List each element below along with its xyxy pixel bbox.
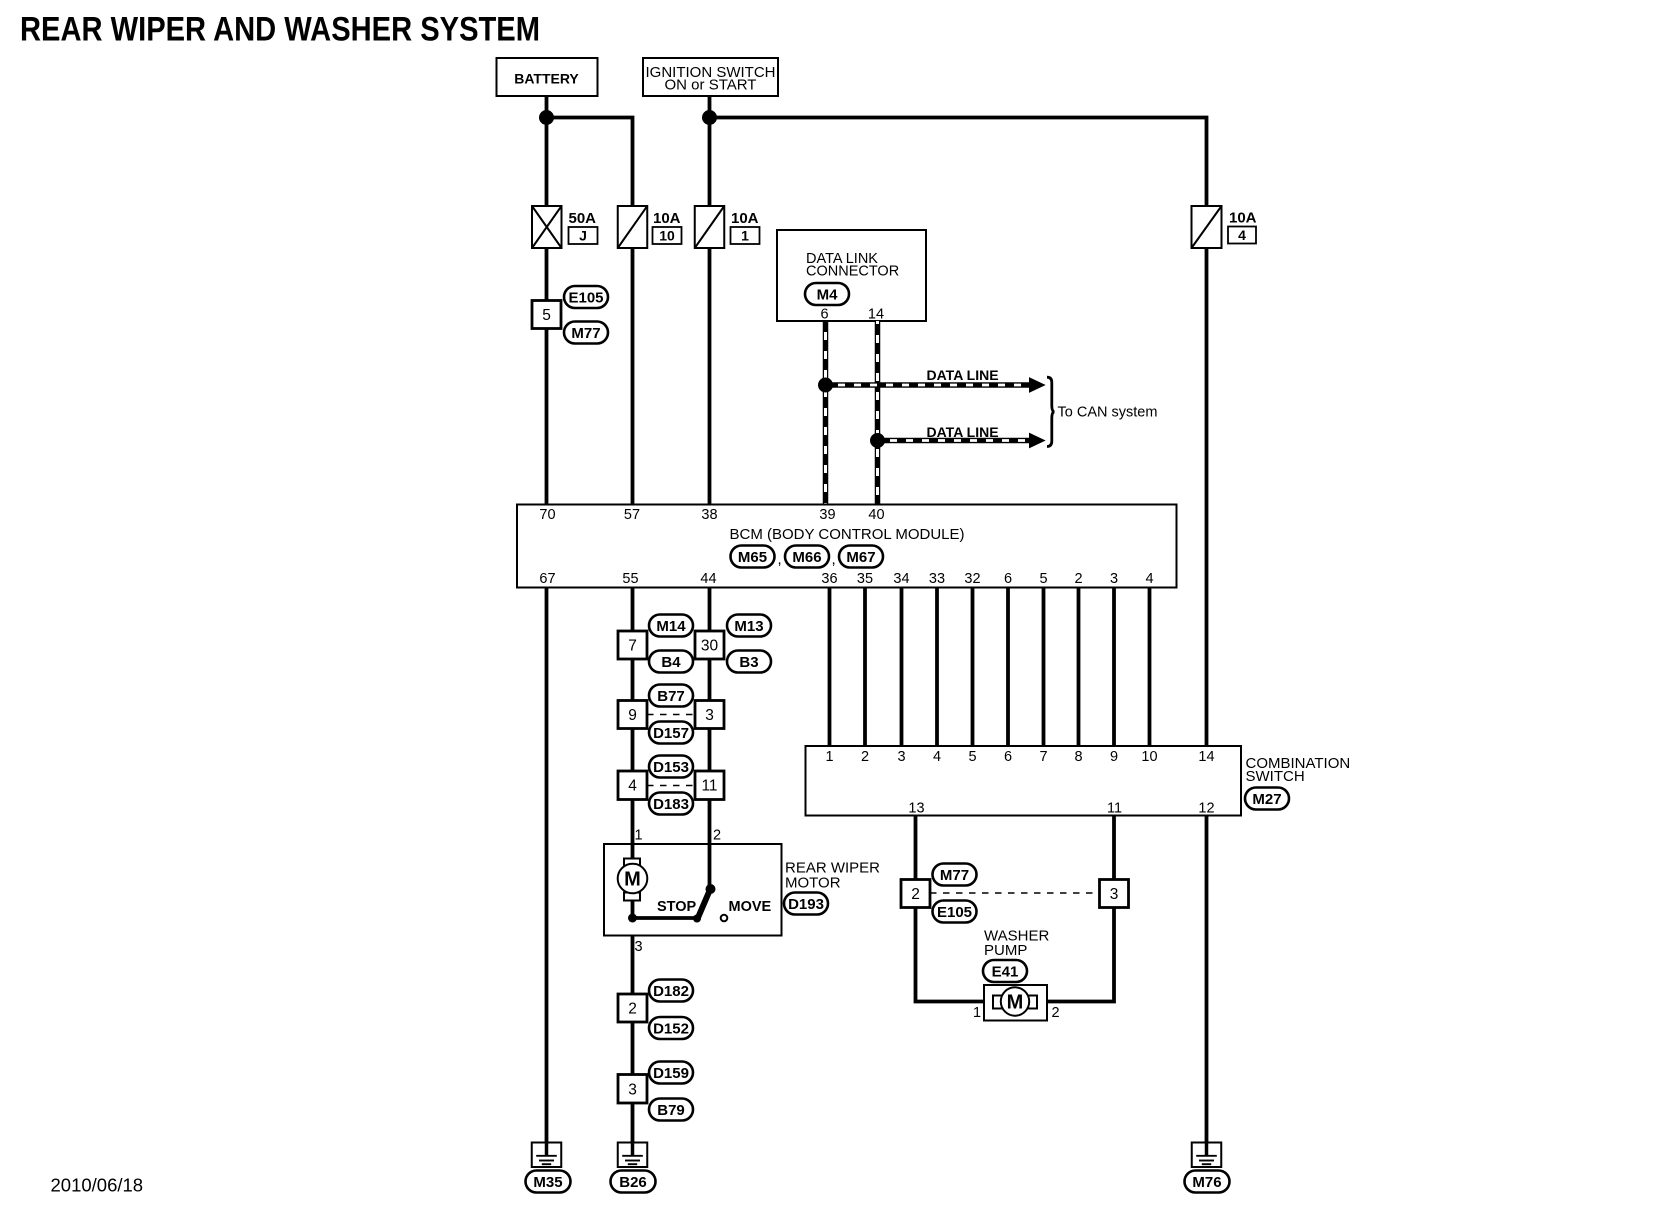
svg-text:55: 55 [622, 571, 638, 587]
svg-text:,: , [778, 551, 782, 568]
svg-text:D182: D182 [653, 983, 689, 1000]
svg-text:4: 4 [933, 749, 941, 765]
wire ignition bus to fuse 4 [710, 118, 1207, 207]
svg-text:50A: 50A [569, 210, 597, 227]
connector label E105 washer [933, 901, 977, 923]
svg-text:67: 67 [539, 571, 555, 587]
svg-text:M: M [1007, 992, 1024, 1014]
connector label M67 [839, 546, 883, 568]
svg-text:M14: M14 [656, 618, 686, 635]
svg-text:14: 14 [868, 307, 884, 323]
combination switch box [806, 746, 1242, 817]
wire connector 11 to rear wiper motor pin 2 [708, 800, 712, 890]
node ignition junction [702, 110, 717, 125]
svg-text:SWITCH: SWITCH [1246, 768, 1305, 785]
svg-text:9: 9 [628, 707, 637, 724]
svg-text:1: 1 [634, 828, 642, 844]
svg-text:10A: 10A [1229, 210, 1257, 227]
node junction data line 6 [818, 378, 833, 393]
connector label D157 [649, 722, 693, 744]
rear wiper motor box [604, 844, 782, 936]
svg-text:PUMP: PUMP [984, 942, 1027, 959]
wire connector 3 to connector 11 [708, 729, 712, 772]
connector 2 washer [901, 880, 930, 908]
connector label M77 washer [933, 864, 977, 886]
svg-text:2: 2 [861, 749, 869, 765]
svg-text:ON or START: ON or START [665, 77, 757, 94]
contact MOVE circle [721, 915, 728, 922]
svg-text:D153: D153 [653, 759, 689, 776]
svg-text:34: 34 [893, 571, 909, 587]
wire fuse 1 to BCM pin 38 [708, 248, 712, 505]
connector label M14 [649, 615, 693, 637]
svg-text:13: 13 [908, 801, 924, 817]
svg-text:M4: M4 [817, 287, 838, 304]
svg-text:2: 2 [1051, 1005, 1059, 1021]
svg-text:DATA LINE: DATA LINE [927, 367, 999, 383]
svg-text:70: 70 [539, 507, 555, 523]
svg-text:36: 36 [821, 571, 837, 587]
connector label B79 [649, 1099, 693, 1121]
ground M76 [1185, 1143, 1230, 1193]
brace to CAN system [1047, 377, 1055, 446]
node motor switch junction [628, 914, 637, 923]
wire ignition switch down to fuse 1 [708, 96, 712, 206]
svg-text:11: 11 [701, 778, 717, 795]
svg-text:REAR WIPER AND WASHER SYSTEM: REAR WIPER AND WASHER SYSTEM [20, 11, 540, 49]
svg-text:D157: D157 [653, 725, 689, 742]
washer pump motor [984, 985, 1047, 1021]
wire fusible link to connector 5 [545, 248, 549, 301]
connector label B77 [649, 685, 693, 707]
svg-text:B77: B77 [657, 688, 685, 705]
connector label M77 [564, 322, 608, 344]
svg-text:E105: E105 [568, 290, 603, 307]
wire connector 3 lower to ground B26 [631, 1103, 635, 1143]
connector 2 lower [618, 994, 647, 1022]
wire combination switch pin 12 to ground M76 [1205, 816, 1209, 1143]
svg-text:2: 2 [1074, 571, 1082, 587]
wire switch common [633, 916, 696, 920]
wire data line DLC pin 14 to BCM pin 40 [875, 321, 881, 505]
wire BCM pin 67 to ground M35 [545, 588, 549, 1143]
connector 3 lower [618, 1075, 647, 1104]
wire connector 4 to rear wiper motor pin 1 [631, 800, 635, 860]
svg-text:57: 57 [624, 507, 640, 523]
fuse 10A 4 [1192, 206, 1257, 248]
wire battery down to fusible link [545, 96, 549, 206]
svg-text:MOTOR: MOTOR [785, 875, 841, 892]
wire connector 5 to BCM pin 70 [545, 329, 549, 505]
wire combination switch pin 11 to connector 3 [1112, 816, 1116, 880]
fuse 10A 10 [618, 206, 682, 248]
svg-text:44: 44 [700, 571, 716, 587]
svg-text:39: 39 [819, 507, 835, 523]
svg-text:14: 14 [1198, 749, 1214, 765]
connector label D193 [784, 893, 828, 915]
svg-text:40: 40 [868, 507, 884, 523]
connector label B4 [649, 651, 693, 673]
wire fuse 4 to combination switch pin 14 [1205, 248, 1209, 746]
svg-text:DATA LINE: DATA LINE [927, 424, 999, 440]
svg-text:3: 3 [634, 939, 642, 955]
svg-text:4: 4 [1238, 227, 1246, 243]
connector 11 [695, 771, 724, 800]
svg-text:BCM (BODY CONTROL MODULE): BCM (BODY CONTROL MODULE) [729, 526, 964, 543]
fusible link 50A J [532, 206, 598, 248]
connector label D159 [649, 1062, 693, 1084]
svg-text:D152: D152 [653, 1021, 689, 1038]
svg-text:1: 1 [741, 228, 749, 244]
svg-text:3: 3 [1110, 886, 1119, 903]
wire connector 3 to washer pump pin 2 [1047, 908, 1114, 1002]
wire combination switch pin 13 to connector 2 [914, 816, 918, 880]
battery box [497, 58, 598, 96]
svg-text:E105: E105 [937, 904, 972, 921]
svg-text:D193: D193 [788, 896, 824, 913]
connector label E41 [983, 960, 1027, 982]
wire motor pin 3 to connector 2 [631, 936, 635, 995]
wire connector 30 to connector 3 [708, 659, 712, 701]
connector 30 [695, 631, 724, 659]
wire fuse 10 to BCM pin 57 [631, 248, 635, 505]
BCM (Body Control Module) box [517, 505, 1177, 588]
connector label M13 [727, 615, 771, 637]
connector 7 [618, 631, 647, 659]
connector label D182 [649, 980, 693, 1002]
ground B26 [611, 1143, 656, 1193]
svg-text:10A: 10A [731, 210, 759, 227]
svg-text:1: 1 [825, 749, 833, 765]
svg-text:6: 6 [820, 307, 828, 323]
wire battery bus to fuse 10 [547, 118, 633, 207]
svg-text:M65: M65 [738, 549, 767, 566]
svg-text:7: 7 [628, 638, 637, 655]
svg-text:32: 32 [964, 571, 980, 587]
connector label D153 [649, 756, 693, 778]
connector label D183 [649, 793, 693, 815]
svg-text:1: 1 [973, 1005, 981, 1021]
svg-text:5: 5 [1039, 571, 1047, 587]
connector label M65 [731, 546, 775, 568]
svg-text:2: 2 [628, 1001, 637, 1018]
svg-text:5: 5 [968, 749, 976, 765]
svg-text:10: 10 [1141, 749, 1157, 765]
switch lever STOP/MOVE [693, 884, 716, 923]
ground M35 [526, 1143, 571, 1193]
connector label B3 [727, 651, 771, 673]
svg-text:BATTERY: BATTERY [514, 71, 579, 87]
svg-text:3: 3 [628, 1082, 637, 1099]
connector 5 [532, 301, 561, 329]
label REAR WIPER MOTOR [785, 860, 880, 892]
svg-text:D159: D159 [653, 1065, 689, 1082]
wire connector 9 to connector 4 [631, 729, 635, 772]
svg-text:M13: M13 [734, 618, 763, 635]
svg-text:E41: E41 [992, 964, 1019, 981]
svg-text:8: 8 [1074, 749, 1082, 765]
connector 9 [618, 701, 647, 729]
svg-text:CONNECTOR: CONNECTOR [806, 264, 899, 280]
fuse 10A 1 [695, 206, 760, 248]
svg-text:30: 30 [701, 638, 719, 655]
connector label D152 [649, 1017, 693, 1039]
dashed link washer 2 to 3 [930, 892, 1100, 894]
svg-text:M66: M66 [792, 549, 821, 566]
svg-text:35: 35 [857, 571, 873, 587]
svg-text:10A: 10A [653, 210, 681, 227]
wire connector 2 to connector 3 lower [631, 1022, 635, 1075]
wires BCM pins 36-4 to combination switch pins 1-10 [830, 588, 1150, 747]
wire connector 7 to connector 9 [631, 659, 635, 701]
svg-text:M77: M77 [571, 325, 600, 342]
svg-text:3: 3 [705, 707, 714, 724]
data link connector M4 [777, 230, 926, 323]
svg-text:6: 6 [1004, 749, 1012, 765]
svg-text:B3: B3 [739, 654, 758, 671]
svg-text:9: 9 [1110, 749, 1118, 765]
svg-text:M77: M77 [940, 867, 969, 884]
wire data line arrow to CAN 1 [826, 378, 1045, 392]
connector label M27 [1245, 788, 1289, 810]
wire data line DLC pin 6 to BCM pin 39 [823, 321, 829, 505]
connector 3 washer [1100, 880, 1129, 908]
svg-text:M35: M35 [533, 1174, 562, 1191]
svg-text:2010/06/18: 2010/06/18 [51, 1175, 144, 1196]
ignition switch box [643, 58, 778, 96]
wire motor to switch common [631, 900, 635, 918]
wire BCM pin 55 to connector 7 [631, 588, 635, 632]
label COMBINATION SWITCH [1246, 755, 1351, 785]
svg-text:10: 10 [659, 228, 675, 244]
svg-text:B79: B79 [657, 1102, 685, 1119]
svg-text:33: 33 [929, 571, 945, 587]
connector 3 [695, 701, 724, 729]
svg-text:M76: M76 [1192, 1174, 1221, 1191]
wire BCM pin 44 to connector 30 [708, 588, 712, 632]
svg-text:STOP: STOP [657, 899, 697, 915]
connector 4 [618, 771, 647, 800]
connector label E105 [564, 286, 608, 308]
svg-text:J: J [579, 228, 587, 244]
svg-text:M67: M67 [846, 549, 875, 566]
svg-text:4: 4 [628, 778, 637, 795]
dashed link 9 to 3 [647, 714, 695, 716]
svg-text:MOVE: MOVE [729, 899, 772, 915]
svg-text:To CAN system: To CAN system [1058, 405, 1158, 421]
label WASHER PUMP [984, 928, 1049, 960]
connector label M66 [785, 546, 829, 568]
svg-text:B26: B26 [619, 1174, 647, 1191]
svg-text:B4: B4 [661, 654, 681, 671]
svg-text:7: 7 [1039, 749, 1047, 765]
wire connector 2 to washer pump pin 1 [916, 908, 985, 1002]
svg-text:2: 2 [713, 828, 721, 844]
svg-text:3: 3 [1110, 571, 1118, 587]
svg-text:,: , [832, 551, 836, 568]
svg-text:3: 3 [897, 749, 905, 765]
node junction data line 14 [870, 433, 885, 448]
svg-text:5: 5 [542, 307, 551, 324]
svg-text:38: 38 [701, 507, 717, 523]
dashed link 4 to 11 [647, 785, 695, 787]
svg-text:12: 12 [1198, 801, 1214, 817]
svg-text:M27: M27 [1252, 791, 1281, 808]
svg-text:D183: D183 [653, 796, 689, 813]
svg-text:2: 2 [911, 886, 920, 903]
svg-text:6: 6 [1004, 571, 1012, 587]
svg-text:M: M [624, 869, 641, 891]
node battery junction [539, 110, 554, 125]
svg-text:4: 4 [1145, 571, 1153, 587]
wire data line arrow to CAN 2 [878, 433, 1045, 447]
svg-text:11: 11 [1107, 801, 1122, 817]
motor M rear wiper [618, 859, 648, 901]
